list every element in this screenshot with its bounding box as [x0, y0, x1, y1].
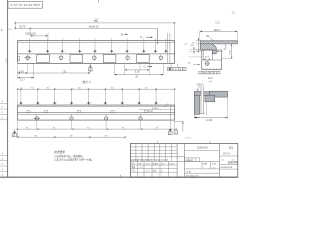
view1 notch 4: [137, 55, 150, 63]
view2 hole 2: [34, 114, 73, 123]
view1 small hole diamond 3: [60, 50, 64, 53]
extension line left end: [14, 21, 16, 29]
title grid vertical 6: [164, 144, 166, 162]
view2 diamond extension 9: [155, 89, 157, 105]
svg-text:16.6.8: 16.6.8: [145, 163, 150, 165]
section left ext line 3: [189, 56, 202, 58]
extension line below x90: [89, 63, 91, 72]
view2 small hole diamond 3: [53, 102, 57, 105]
D-D ext right: [227, 97, 229, 118]
datum flag B below view2 right: [169, 129, 172, 131]
datum flag A below view2 left: [13, 132, 16, 134]
section C-C top dim line: [200, 30, 238, 32]
view1 diamond extension 3: [61, 38, 63, 51]
view1 diamond extension 2: [47, 38, 49, 51]
section D-D hatched middle leg: [205, 95, 215, 101]
view2 diamond extension 4: [71, 89, 73, 105]
view1 small hole diamond 9: [153, 50, 157, 53]
view2 hole centerline down 1: [36, 123, 38, 130]
view1 dim line 31.75: [15, 27, 157, 29]
view1 diamond extension 7: [126, 38, 128, 51]
extension line right end: [174, 22, 176, 40]
svg-text:30: 30: [222, 160, 224, 162]
sheet centering tick top: [98, 0, 100, 2]
view2 right dim arrow: [182, 122, 183, 124]
leader D: [195, 116, 201, 118]
view1 notch 3: [103, 55, 116, 63]
extension line x149.4: [148, 63, 150, 75]
ground hatch tick 6: [219, 68, 221, 70]
part number box top-left: [8, 2, 43, 9]
section D-D pin: [201, 86, 203, 113]
title grid vertical 3: [147, 144, 149, 162]
title grid vertical 2: [141, 144, 143, 162]
svg-text:0.02: 0.02: [8, 29, 12, 31]
svg-text:USE-03-03-01-V1.0: USE-03-03-01-V1.0: [10, 3, 40, 7]
view2 ext right: [174, 89, 176, 105]
svg-text:B: B: [1, 28, 3, 32]
section left vert dim: [193, 47, 195, 54]
view2 small hole diamond 4: [70, 102, 74, 105]
view2 diamond extension 7: [121, 89, 123, 105]
svg-text:C-C: C-C: [215, 21, 220, 25]
sheet frame bottom border: [0, 176, 238, 178]
section D-D inner vertical: [205, 102, 207, 115]
title block outer frame: [130, 144, 237, 178]
view1 bar right edge: [174, 41, 176, 64]
view2 tab 2: [44, 111, 47, 113]
section ext left: [199, 31, 201, 40]
view2 small hole diamond 2: [36, 102, 40, 105]
section left leader arrow: [198, 64, 200, 65]
svg-text:10.16: 10.16: [206, 120, 212, 122]
stage mark boxes: [185, 158, 200, 162]
title sig col line 1: [137, 161, 139, 177]
view2 tab 5: [144, 111, 147, 113]
section C arrow lower: [150, 66, 152, 68]
sheet frame left border: [7, 0, 9, 177]
GDT leader 2: [177, 63, 179, 67]
view1 hole 3: [25, 54, 96, 61]
svg-text:2016-678: 2016-678: [197, 146, 208, 149]
view2 right notch line: [169, 105, 171, 120]
view2 lower ext right: [174, 120, 176, 130]
view1 diamond extension 4: [79, 38, 81, 51]
view1 notch 1: [37, 55, 50, 63]
svg-text:放大 A: 放大 A: [82, 80, 90, 84]
view2 partial line: [139, 109, 175, 111]
title grid vertical 7: [171, 144, 173, 162]
title grid horizontal 5: [130, 160, 219, 162]
svg-text:(4.2): (4.2): [148, 111, 153, 113]
svg-text:1.去除毛刺飞边，锐角倒钝。: 1.去除毛刺飞边，锐角倒钝。: [54, 154, 85, 158]
ground hatch tick 5: [215, 68, 217, 70]
title sig col line 3: [151, 161, 153, 177]
assembly inner line: [202, 59, 222, 61]
view2 right datum stem: [169, 120, 171, 129]
section C arrow upper: [151, 36, 153, 38]
view1 overall dim line 350: [15, 22, 174, 24]
title grid horizontal 1: [130, 146, 177, 148]
view2 diamond extension 5: [88, 89, 90, 105]
view1 lower dim line 12.7: [18, 77, 34, 79]
view2 lower ext left: [17, 120, 19, 138]
view1 bar outline: [18, 40, 175, 42]
view1 small hole diamond 7: [125, 50, 129, 53]
view1 left end small slot: [18, 57, 20, 60]
view1 diamond extension 9: [154, 38, 156, 51]
sheet centering tick bottom: [120, 175, 122, 177]
svg-text:345±0.05: 345±0.05: [89, 26, 100, 29]
view1 hole 5: [25, 54, 163, 61]
svg-text:12.7: 12.7: [20, 78, 25, 81]
small dim arrow pair: [204, 59, 206, 60]
D-D bottom dim line: [194, 117, 227, 119]
view2 small hole diamond 8: [137, 102, 141, 105]
left margin tick 4: [0, 119, 8, 121]
title right line 2: [220, 164, 238, 166]
view2 small hole diamond 5: [86, 102, 90, 105]
step dim leader: [218, 51, 222, 53]
view1 small hole diamond 4: [78, 50, 82, 53]
svg-text:12: 12: [1, 101, 3, 103]
section C-C hatched base block: [200, 44, 216, 54]
svg-text:2:1: 2:1: [232, 11, 236, 14]
ext line right 58.5: [222, 58, 233, 60]
view2 ext left: [17, 89, 19, 105]
svg-text:D-D: D-D: [208, 77, 213, 80]
view1 diamond extension 5: [94, 38, 96, 51]
view1 bar left edge: [17, 41, 19, 64]
fold mark tick 1: [157, 141, 159, 144]
svg-text:31.75: 31.75: [19, 26, 26, 29]
svg-text:12: 12: [1, 107, 3, 109]
view1 hole 4: [25, 54, 130, 61]
svg-text:S3: S3: [229, 146, 233, 150]
svg-text:Ra 1.6: Ra 1.6: [186, 138, 191, 140]
section right vert dim 2: [225, 44, 227, 50]
view1 hole 2: [25, 54, 63, 61]
view2 diamond extension 8: [138, 89, 140, 105]
section C-C hatched bar plate: [200, 41, 237, 44]
title right line 3: [220, 168, 238, 170]
section right vert dim: [231, 44, 233, 59]
title sig col line 2: [143, 161, 145, 177]
svg-text:12: 12: [1, 117, 3, 119]
view2 hole 4: [34, 114, 142, 123]
left margin lower tick 2: [0, 160, 8, 162]
view2 lower dim chain 1: [18, 128, 175, 130]
extension line x140: [139, 63, 141, 70]
section C cutting line: [157, 28, 159, 44]
view1 small hole diamond 8: [142, 50, 146, 53]
title block vertical main 1: [176, 144, 178, 178]
D-D ext left: [193, 114, 195, 118]
svg-text:工艺: 工艺: [131, 170, 135, 173]
svg-text:12: 12: [1, 112, 3, 114]
title block vertical main 2: [184, 144, 186, 178]
view2 bar right edge: [174, 105, 176, 120]
view2 upper dim chain line: [18, 88, 175, 90]
section left ext line 1: [189, 48, 200, 50]
view1 small hole diamond 2: [46, 50, 50, 53]
view2 diamond extension 3: [54, 89, 56, 105]
left margin lower tick 3: [0, 165, 8, 167]
title grid vertical 1: [135, 144, 137, 162]
view1 diamond extension 10: [165, 38, 167, 51]
extension line x163.4: [162, 63, 164, 75]
view2 lower dim chain 2: [18, 136, 125, 138]
title sig row line 1: [130, 164, 177, 166]
left margin tick 2: [0, 108, 8, 110]
title grid horizontal 2: [130, 149, 177, 151]
title sig row line 2: [130, 168, 177, 170]
section C-C lower mating part: [202, 50, 222, 70]
svg-text:20±0.1: 20±0.1: [214, 30, 222, 32]
GDT feature control frame view1: [168, 67, 186, 70]
datum box C right: [174, 131, 178, 134]
view2 hole 3: [34, 114, 108, 123]
title mid line 1: [185, 149, 220, 151]
callout leader arrow: [196, 89, 198, 90]
view2 hole centerline down 4: [140, 123, 142, 130]
extension line below hole1: [27, 63, 29, 73]
view2 small hole diamond 7: [120, 102, 124, 105]
section ext 50: [195, 49, 203, 51]
view2 small hole diamond 6: [103, 102, 107, 105]
view2 right dim line: [175, 121, 183, 123]
title right line 1: [220, 155, 238, 157]
extension line below left end: [17, 63, 19, 78]
view2 diamond extension 6: [104, 89, 106, 105]
step dim arrow: [216, 51, 218, 52]
title mid vert 2: [210, 161, 212, 169]
view1 small hole diamond 1: [28, 50, 32, 53]
svg-text:Ø2.6: Ø2.6: [205, 57, 209, 59]
view1 right notch line 1: [167, 33, 169, 63]
slot wall right: [211, 50, 213, 60]
view1 diamond extension 1: [29, 38, 31, 51]
title mid vert 1: [201, 161, 203, 169]
view1 small hole diamond 10: [164, 50, 168, 53]
view1 notch 2: [70, 55, 83, 63]
view2 bar left edge: [17, 105, 19, 120]
view1 small hole diamond 6: [110, 50, 114, 53]
section left leader: [193, 64, 198, 66]
view1 lower dim line A: [18, 72, 91, 74]
left margin tick 3: [0, 113, 8, 115]
view2 hole centerline down 3: [105, 123, 107, 130]
title grid vertical 4: [153, 144, 155, 162]
slot wall left: [202, 50, 204, 60]
title grid horizontal 4: [130, 156, 184, 158]
svg-text:(25±0.02): (25±0.02): [25, 32, 36, 35]
svg-text:C: C: [144, 65, 146, 69]
ground hatch tick 1: [202, 68, 204, 70]
R2 leader: [210, 37, 215, 41]
extension line x48: [47, 33, 49, 40]
leader D arrow: [195, 117, 197, 119]
svg-text:4-Ø3.2: 4-Ø3.2: [152, 108, 159, 110]
svg-text:03-03-03-01: 03-03-03-01: [221, 167, 234, 169]
view1 dim line 25: [30, 35, 48, 37]
svg-text:1.4: 1.4: [232, 160, 235, 162]
GDT feature control frame row: [199, 71, 220, 74]
view2 tab 1: [27, 111, 30, 113]
view2 small hole diamond 9: [154, 102, 158, 105]
section left ext line 2: [189, 50, 202, 52]
left margin lower tick 4: [0, 170, 8, 172]
view2 diamond extension 2: [37, 89, 39, 105]
svg-text:Ø6: Ø6: [188, 63, 191, 65]
section D-D hatched left column: [194, 92, 199, 115]
svg-text:+0.05: +0.05: [208, 81, 213, 83]
section D-D hatched top band: [194, 92, 211, 96]
view1 right notch line 2: [169, 33, 171, 63]
svg-text:3.18: 3.18: [135, 72, 140, 74]
title mid line 3: [185, 172, 220, 174]
view2 small hole diamond 1: [19, 102, 23, 105]
view2 tab 3: [78, 111, 81, 113]
left margin tick 1: [0, 103, 8, 105]
section D-D pin wall right: [203, 86, 205, 113]
view1 dim line 25b: [114, 74, 163, 76]
fold mark tick 2: [209, 141, 211, 144]
view2 bar outline: [18, 104, 175, 106]
ground hatch tick 2: [205, 68, 207, 70]
svg-text:D: D: [121, 32, 123, 36]
svg-text:C: C: [140, 35, 142, 39]
title mid line 2: [185, 168, 220, 170]
section ext 40.8: [196, 40, 201, 42]
view2 diamond extension 1: [20, 89, 22, 105]
view2 right dim stem: [182, 122, 184, 132]
small hole in assembly: [205, 61, 209, 65]
extension line x124.8: [124, 63, 126, 75]
svg-text:16.6.9: 16.6.9: [145, 171, 150, 173]
svg-text:技术要求: 技术要求: [54, 150, 65, 154]
section vert dim line: [197, 37, 199, 52]
section D-D slot bottom: [200, 113, 205, 115]
title sig col line 5: [168, 161, 170, 177]
view2 leader slash: [165, 104, 168, 107]
svg-text:2.未注尺寸公差按GB/T 1804—m级。: 2.未注尺寸公差按GB/T 1804—m级。: [54, 158, 93, 162]
title block vertical main 3: [219, 144, 221, 178]
section D arrow upper: [126, 34, 128, 36]
title sig col line 4: [159, 161, 161, 177]
view1 dim line 3.18: [125, 69, 150, 71]
section D-D pin wall left: [200, 86, 202, 113]
section ext right: [236, 31, 238, 40]
view1 diamond extension 6: [111, 38, 113, 51]
ext line right 43.9: [222, 43, 233, 45]
title grid horizontal 3: [130, 153, 177, 155]
title sig row line 3: [130, 171, 177, 173]
svg-text:6.35: 6.35: [19, 70, 24, 73]
view1 diamond extension 8: [143, 38, 145, 51]
view2 tab 4: [111, 111, 114, 113]
svg-text:Ø0.05: Ø0.05: [203, 73, 208, 75]
view1 hole 1: [25, 54, 31, 61]
title grid vertical 5: [159, 144, 161, 162]
GDT leader 1: [170, 63, 172, 67]
section ext 43.9: [196, 43, 201, 45]
datum A flag view1: [89, 65, 91, 67]
ground hatch tick 4: [212, 68, 214, 70]
view2 hole centerline down 2: [71, 123, 73, 130]
view2 hole 1: [34, 114, 40, 123]
callout leader: [198, 86, 200, 89]
section D-D hatched top right bar: [209, 91, 227, 97]
extension line below x33.7: [33, 63, 35, 78]
extension line x114.4: [113, 63, 115, 75]
ground hatch tick 3: [208, 68, 210, 70]
extension line x30: [29, 29, 31, 36]
left margin lower tick 1: [0, 154, 8, 156]
view1 small hole diamond 5: [93, 50, 97, 53]
small pink annotation: [90, 102, 92, 103]
